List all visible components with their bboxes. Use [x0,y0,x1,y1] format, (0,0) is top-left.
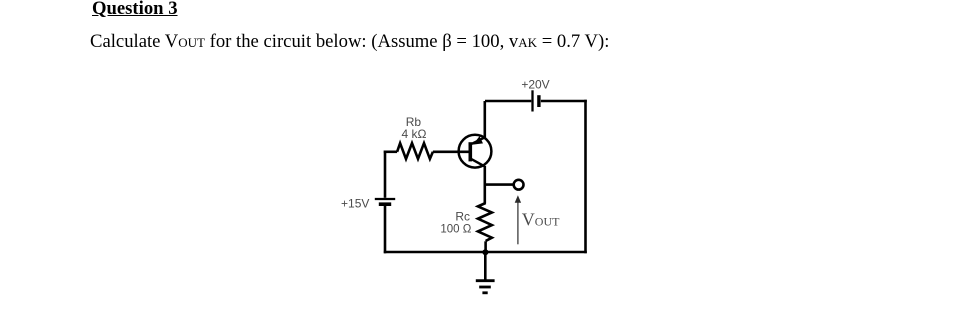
wire: left rail upper vertical (Rb corner to +15V battery) [384,151,387,198]
resistor Rc zigzag [478,203,492,241]
svg-text:+20V: +20V [521,78,549,92]
node: output terminal open circle [514,180,524,190]
wire: top-left segment from collector rail to +20V battery [485,100,531,103]
resistor Rb zigzag [397,143,433,159]
Vout arrowhead [515,195,521,203]
transistor Q1 circle [459,135,492,168]
node: junction dot at Rc/ground [482,249,488,255]
svg-text:4 kΩ: 4 kΩ [402,127,427,141]
wire: right rail vertical [584,100,587,254]
transistor Q1 collector diagonal (bottom) [470,158,485,166]
wire: left rail lower vertical (+15V battery to bottom rail) [384,206,387,254]
problem statement text [90,31,609,53]
wire: ground stem [484,252,487,280]
wire: collector vertical down to Rc [483,166,486,204]
battery V2 +20V long plate [531,90,533,111]
heading Question 3 [92,0,178,20]
svg-text:100 Ω: 100 Ω [440,223,471,235]
ground symbol line 3 [482,291,487,294]
svg-text:Rc: Rc [455,210,470,224]
battery V1 +15V long plate [375,198,395,200]
battery V1 +15V short plate [379,202,391,206]
wire: Rb left lead [384,151,397,154]
wire: top-right segment from battery to right rail [541,100,587,103]
wire: Rb right lead / base lead [433,151,470,154]
ground symbol line 1 [476,279,495,282]
wire: output stub [485,183,514,186]
wire: Rc bottom lead [484,241,487,252]
wire: bottom rail horizontal [384,251,587,254]
Vout arrow shaft [517,202,519,245]
transistor Q1 base bar [468,142,472,161]
svg-text:+15V: +15V [341,196,369,210]
battery V2 +20V short plate [537,95,540,107]
ground symbol line 2 [479,286,491,289]
transistor Q1 emitter diagonal (top) [470,137,485,144]
wire: emitter vertical up to top rail [483,101,486,138]
svg-text:VOUT: VOUT [522,210,560,230]
transistor Q1 emitter arrow (points into base, PNP) [473,136,483,144]
